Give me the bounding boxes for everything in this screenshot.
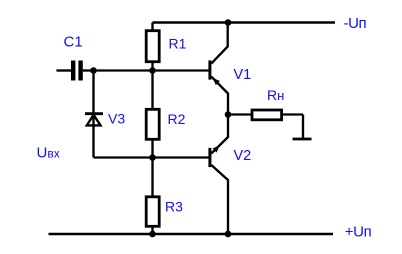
label R2 <box>168 111 186 127</box>
label Uvx (input voltage) <box>37 144 60 161</box>
wire V3 bottom elbow to node D <box>94 156 153 158</box>
wire node D to V2 base <box>153 156 210 158</box>
resistor Rn (load) <box>252 110 303 120</box>
node C (V1 collector on top rail) <box>225 19 232 26</box>
resistor R2 <box>146 109 159 157</box>
svg-text:V1: V1 <box>234 67 252 83</box>
transistor V2 (NPN) <box>210 115 228 235</box>
label C1 <box>64 34 83 51</box>
resistor R3 <box>146 197 159 234</box>
diode V3 <box>85 114 103 158</box>
svg-text:Rн: Rн <box>267 87 284 103</box>
svg-text:R1: R1 <box>169 36 187 52</box>
node F (V2 collector on bottom rail) <box>225 231 232 238</box>
svg-text:+Uп: +Uп <box>345 223 372 240</box>
svg-text:Uвх: Uвх <box>37 144 60 161</box>
svg-text:R2: R2 <box>168 111 186 127</box>
label V2 <box>234 148 252 164</box>
wire Rn down to ground <box>302 115 304 140</box>
ground <box>293 138 312 141</box>
svg-text:-Uп: -Uп <box>344 15 367 32</box>
svg-text:C1: C1 <box>64 34 83 51</box>
wire node A down to diode V3 <box>92 71 94 114</box>
resistor R1 <box>146 31 159 71</box>
power rail -Up top <box>153 21 336 23</box>
transistor V1 (PNP) <box>210 23 228 115</box>
label R3 <box>165 198 183 214</box>
label V1 <box>234 67 252 83</box>
power rail +Up bottom <box>49 233 334 235</box>
wire C1 to node A <box>83 69 94 71</box>
svg-text:V3: V3 <box>108 110 125 126</box>
label R1 <box>169 36 187 52</box>
node G (output node, emitters junction) <box>225 111 232 118</box>
node D (R2/R3/V3/V2-base junction) <box>149 154 156 161</box>
label -Up <box>344 15 367 32</box>
wire input stub to C1 <box>57 69 72 71</box>
svg-text:V2: V2 <box>234 148 252 164</box>
label V3 <box>108 110 125 126</box>
node B (R1 bottom on base wire) <box>149 67 156 74</box>
wire node A to V1 base <box>94 69 210 71</box>
label Rn <box>267 87 284 103</box>
wire node D down to R3 <box>151 158 153 197</box>
wire node B down to R2 <box>151 71 153 110</box>
wire node G to Rn <box>228 113 251 115</box>
label +Up <box>345 223 372 240</box>
node E (R3 bottom on bottom rail) <box>149 231 156 238</box>
node A (C1 / V3 / base wire junction) <box>90 67 97 74</box>
wire top rail stub above R1 <box>151 23 153 30</box>
capacitor C1 <box>73 61 80 81</box>
svg-text:R3: R3 <box>165 198 183 214</box>
